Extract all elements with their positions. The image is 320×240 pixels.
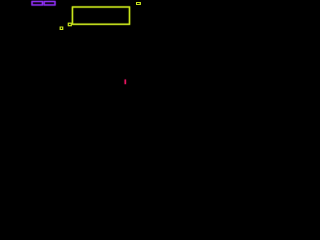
red cursor bar [125, 80, 126, 85]
yellow handle square at rect corner [68, 23, 71, 26]
yellow small rect top-right [137, 3, 141, 5]
purple table cell left [32, 2, 43, 5]
yellow rectangle [72, 7, 129, 24]
yellow small square lower-left [60, 27, 63, 30]
purple table cell right [44, 2, 55, 5]
